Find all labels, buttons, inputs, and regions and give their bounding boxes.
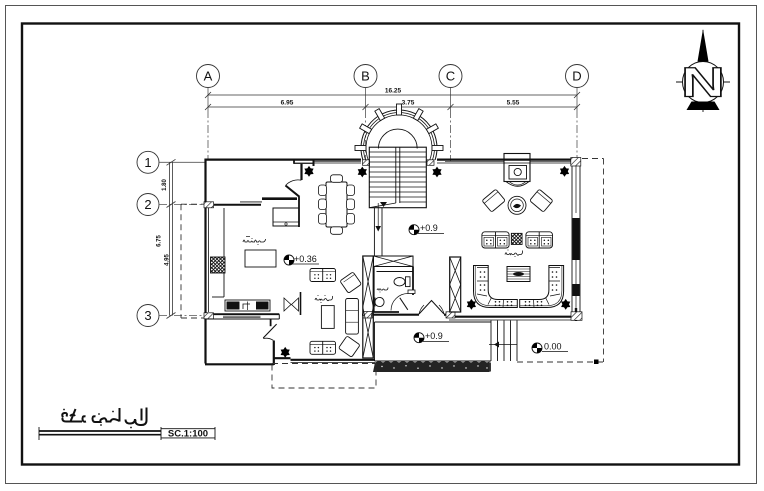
- svg-text:2: 2: [144, 197, 151, 212]
- svg-text:6.95: 6.95: [281, 100, 294, 107]
- svg-text:D: D: [572, 69, 581, 84]
- svg-text:1: 1: [144, 155, 151, 170]
- svg-text:+0.9: +0.9: [425, 331, 443, 341]
- svg-text:A: A: [204, 69, 213, 84]
- svg-text:5.55: 5.55: [507, 100, 520, 107]
- svg-text:0.00: 0.00: [544, 342, 562, 352]
- svg-text:C: C: [446, 69, 455, 84]
- svg-text:3: 3: [144, 308, 151, 323]
- svg-text:SC.1:100: SC.1:100: [168, 429, 208, 440]
- svg-text:B: B: [361, 69, 370, 84]
- svg-text:1.80: 1.80: [162, 179, 168, 191]
- svg-text:+0.36: +0.36: [294, 254, 317, 264]
- svg-text:+0.9: +0.9: [420, 223, 438, 233]
- svg-text:16.25: 16.25: [385, 88, 402, 95]
- svg-text:N: N: [681, 60, 725, 107]
- svg-text:6.75: 6.75: [157, 235, 163, 247]
- svg-text:4.95: 4.95: [165, 254, 171, 266]
- svg-text:3.75: 3.75: [402, 100, 415, 107]
